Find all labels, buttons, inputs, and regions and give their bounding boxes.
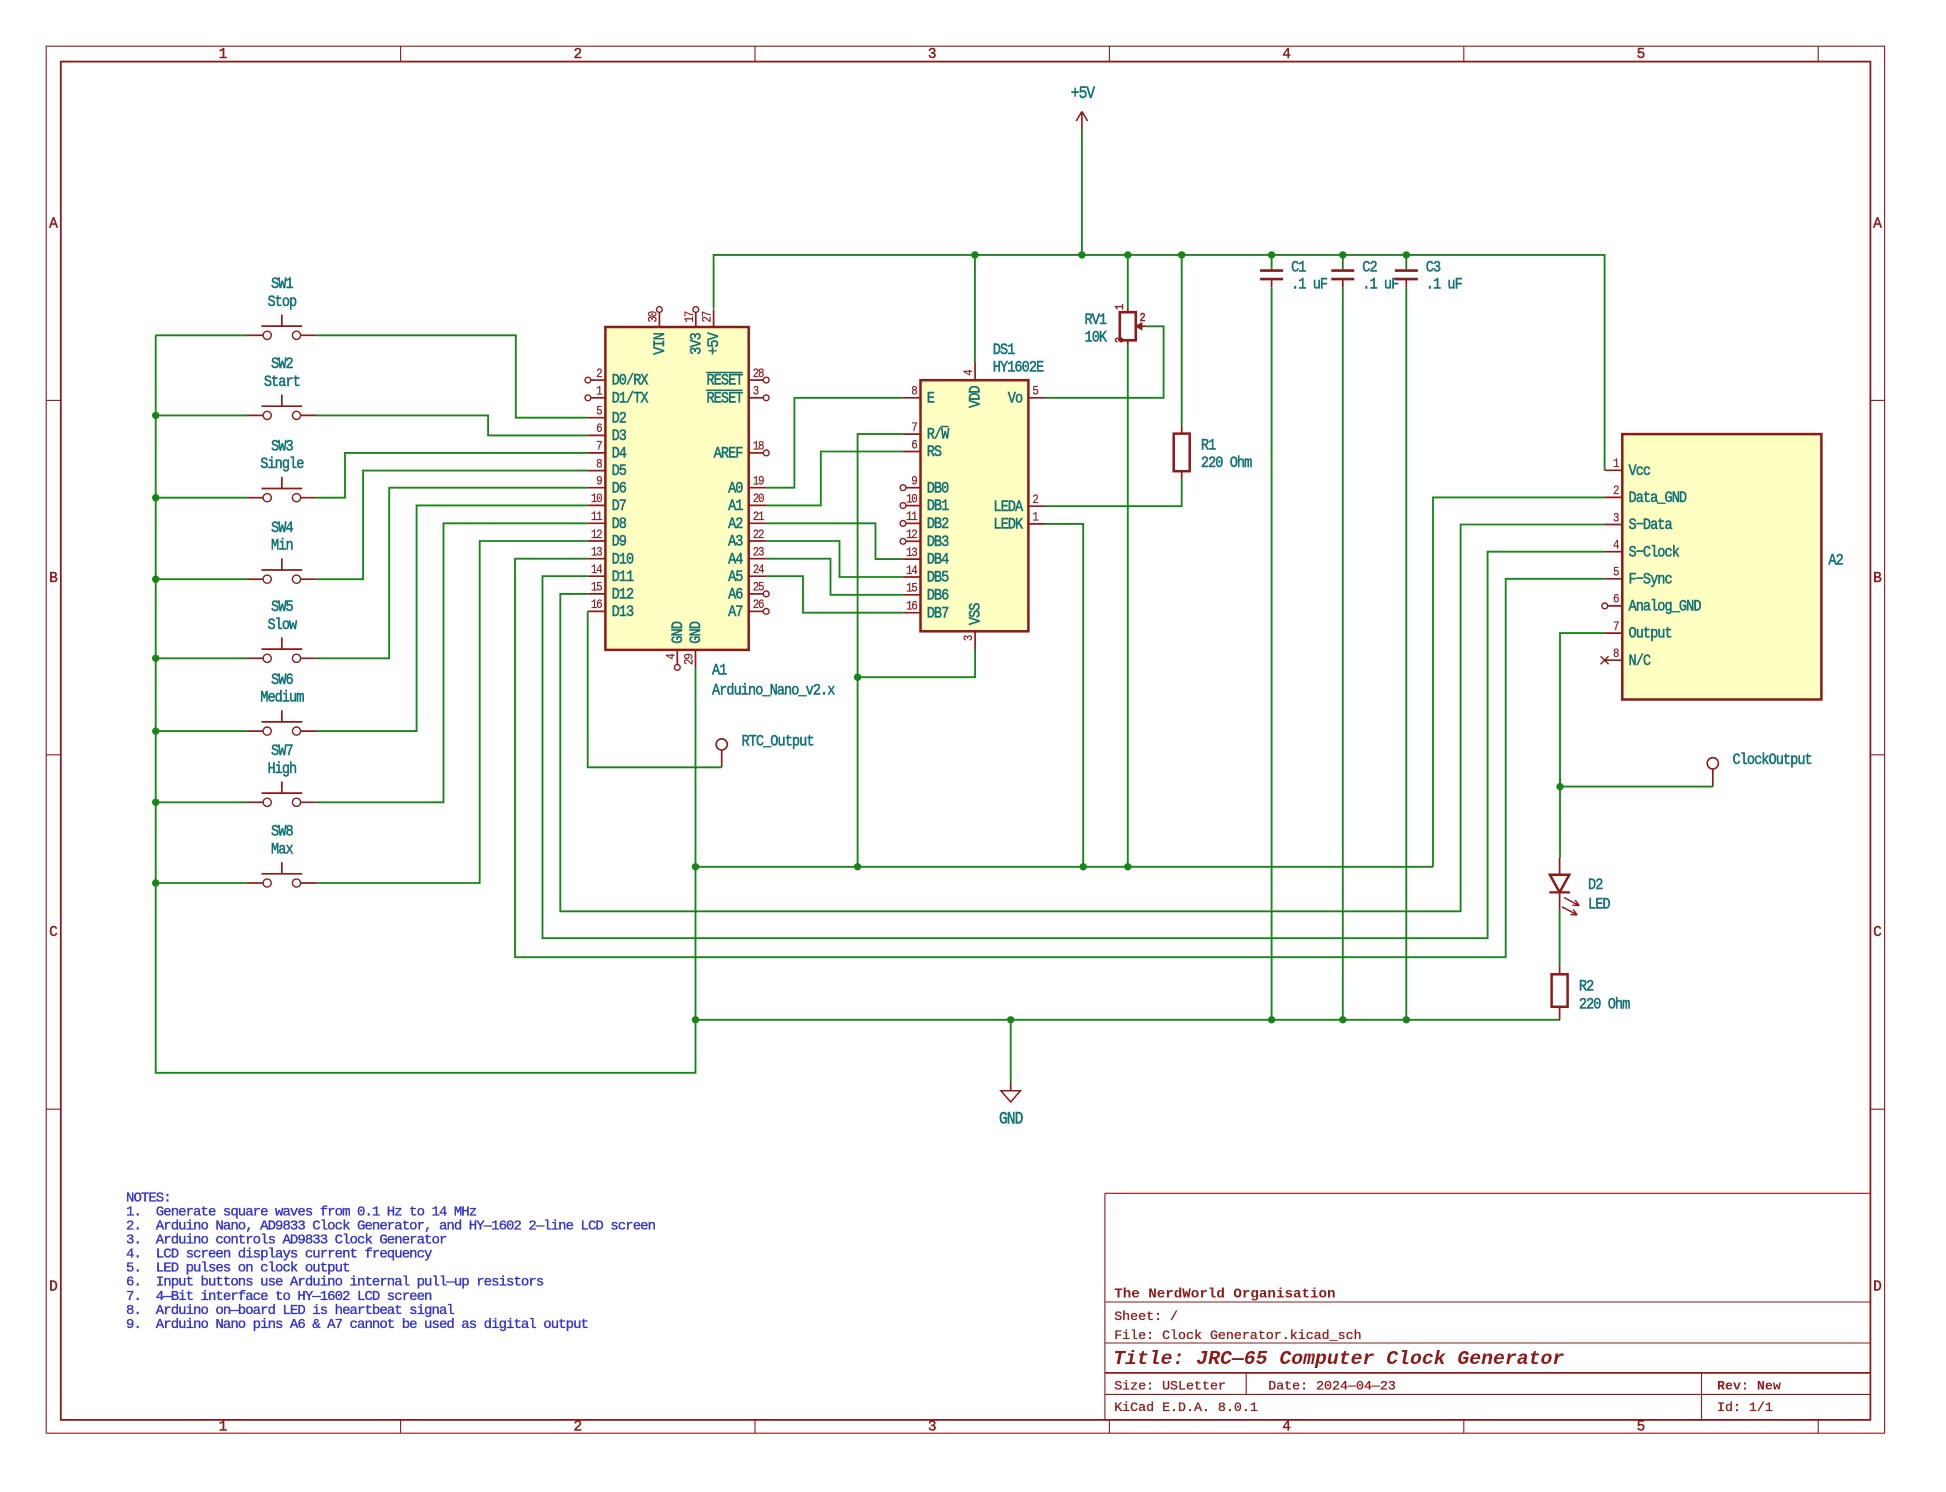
svg-text:10: 10 <box>906 492 918 507</box>
switch SW5 Slow <box>247 599 317 662</box>
svg-text:27: 27 <box>700 311 715 323</box>
svg-text:3: 3 <box>1114 337 1127 343</box>
switch SW1 Stop <box>247 276 317 339</box>
svg-text:DS1: DS1 <box>993 342 1016 359</box>
svg-text:1: 1 <box>1613 456 1619 471</box>
svg-text:D13: D13 <box>612 604 634 621</box>
svg-text:14: 14 <box>591 562 603 577</box>
svg-text:D2: D2 <box>612 410 627 427</box>
A2 pin 2 Data_GND <box>1605 483 1688 507</box>
svg-text:Start: Start <box>264 374 300 391</box>
svg-text:E: E <box>927 391 935 408</box>
svg-text:Size: USLetter: Size: USLetter <box>1114 1379 1226 1394</box>
svg-text:220 Ohm: 220 Ohm <box>1201 455 1252 472</box>
svg-text:17: 17 <box>682 311 697 323</box>
svg-text:5: 5 <box>1032 384 1038 399</box>
svg-text:.1 uF: .1 uF <box>1426 276 1462 293</box>
svg-text:SW1: SW1 <box>271 276 294 293</box>
wire SW4 to A1 D5 <box>317 471 588 580</box>
svg-text:6: 6 <box>911 438 917 453</box>
A1 pin 22 A3 <box>728 527 766 551</box>
wire A1 D11 to A2 S-Clock <box>543 552 1605 939</box>
svg-text:13: 13 <box>591 545 603 560</box>
wire A1 A0 to DS1 E <box>766 398 902 488</box>
svg-text:2: 2 <box>1139 312 1145 325</box>
svg-text:VDD: VDD <box>968 385 985 408</box>
svg-text:SW3: SW3 <box>271 439 293 456</box>
A1 pin 7 D4 <box>588 439 627 463</box>
A1 pin 21 A2 <box>728 509 766 533</box>
wire SW7 to A1 D8 <box>317 523 588 802</box>
power symbol +5V <box>1071 84 1096 255</box>
svg-text:S−Data: S−Data <box>1629 517 1673 534</box>
svg-text:HY1602E: HY1602E <box>993 360 1044 377</box>
A1 pin 29 GND <box>682 621 706 668</box>
wire rail to SW1 <box>156 334 247 336</box>
svg-text:13: 13 <box>906 545 918 560</box>
A1 pin 3 RESET <box>706 384 769 408</box>
svg-text:7: 7 <box>596 439 602 454</box>
wire A1 A5 to DS1 DB7 <box>766 576 902 613</box>
DS1 pin 15 DB6 <box>903 581 949 605</box>
wire A1 D10 to A2 F-Sync <box>515 559 1605 958</box>
wire SW8 to A1 D9 <box>317 541 588 883</box>
wire SW6 to A1 D7 <box>317 505 588 731</box>
svg-text:A: A <box>49 216 58 232</box>
wire A1 A3 to DS1 DB5 <box>766 541 902 577</box>
svg-text:1: 1 <box>219 1420 228 1436</box>
svg-text:3: 3 <box>961 635 976 641</box>
A1 pin 12 D9 <box>588 527 626 551</box>
svg-text:3: 3 <box>753 384 759 399</box>
svg-text:7: 7 <box>1613 619 1619 634</box>
junction ClockOutput <box>1556 783 1563 790</box>
svg-text:11: 11 <box>591 509 603 524</box>
wire +5V rail <box>714 255 1605 470</box>
svg-text:2: 2 <box>1613 483 1619 498</box>
A1 pin 26 A7 <box>728 597 769 621</box>
svg-text:D6: D6 <box>612 480 627 497</box>
svg-text:24: 24 <box>753 562 765 577</box>
svg-text:.1 uF: .1 uF <box>1362 276 1398 293</box>
svg-text:D9: D9 <box>612 534 627 551</box>
LCD DS1 body <box>921 380 1029 631</box>
A1 pin 25 A6 <box>728 580 769 604</box>
DS1 pin 10 DB1 <box>900 492 949 516</box>
svg-text:12: 12 <box>906 527 918 542</box>
svg-text:SW5: SW5 <box>271 599 293 616</box>
potentiometer RV1 10K <box>1085 255 1147 867</box>
svg-text:19: 19 <box>753 474 765 489</box>
wire RV1 wiper to DS1 Vo <box>1046 326 1164 398</box>
DS1 pin 12 DB3 <box>900 527 948 551</box>
svg-text:8: 8 <box>596 457 602 472</box>
svg-text:A5: A5 <box>728 569 743 586</box>
svg-text:D3: D3 <box>612 428 627 445</box>
border row ticks <box>46 400 1884 1109</box>
svg-text:High: High <box>267 761 296 778</box>
A2 pin 7 Output <box>1605 619 1672 643</box>
svg-text:A3: A3 <box>728 534 743 551</box>
notes text <box>126 1190 656 1332</box>
wire rail to SW6 <box>156 730 247 732</box>
svg-text:10K: 10K <box>1085 330 1108 347</box>
A1 pin 18 AREF <box>714 439 769 463</box>
A1 pin 1 D1/TX <box>585 384 649 408</box>
svg-text:14: 14 <box>906 563 918 578</box>
wire SW2 to A1 D3 <box>317 415 588 435</box>
DS1 pin 6 RS <box>903 438 942 462</box>
svg-text:8: 8 <box>911 384 917 399</box>
A1 pin 15 D12 <box>588 580 634 604</box>
svg-text:220 Ohm: 220 Ohm <box>1579 996 1630 1013</box>
DS1 pin 1 LEDK <box>993 510 1046 534</box>
svg-text:RESET: RESET <box>706 391 743 408</box>
svg-text:9: 9 <box>911 474 917 489</box>
wire A1 D12 to A2 S-Data <box>560 525 1604 912</box>
svg-text:Output: Output <box>1629 626 1672 643</box>
svg-text:R/W: R/W <box>927 427 950 444</box>
border column ticks <box>401 46 1819 1433</box>
svg-text:4: 4 <box>1613 538 1619 553</box>
border column labels <box>219 47 1646 1436</box>
svg-text:A2: A2 <box>728 516 743 533</box>
connector ClockOutput <box>1707 752 1812 786</box>
DS1 pin 2 LEDA <box>993 492 1046 516</box>
wire rail to SW7 <box>156 801 247 803</box>
A2 pin 3 S−Data <box>1605 511 1673 535</box>
svg-text:1: 1 <box>219 47 228 63</box>
svg-text:23: 23 <box>753 545 765 560</box>
svg-text:SW4: SW4 <box>271 520 294 537</box>
svg-text:VIN: VIN <box>652 333 669 355</box>
svg-text:Single: Single <box>260 456 303 473</box>
svg-text:C: C <box>49 925 58 941</box>
svg-text:16: 16 <box>906 599 918 614</box>
Arduino Nano A1 body <box>605 327 748 650</box>
wire A1 A1pin to DS1 RS <box>766 452 902 506</box>
junction R/W VSS <box>854 674 861 681</box>
svg-text:Data_GND: Data_GND <box>1629 490 1688 507</box>
switch SW7 High <box>247 743 317 806</box>
svg-text:RV1: RV1 <box>1085 312 1108 329</box>
wire C3 to ground rail <box>1405 288 1407 1020</box>
svg-text:6: 6 <box>596 421 602 436</box>
title block frame <box>1105 1193 1871 1420</box>
A1 pin 28 RESET <box>706 366 769 390</box>
svg-text:21: 21 <box>753 509 765 524</box>
wire DS1 R/W to ground bus <box>858 434 903 867</box>
DS1 pin 16 DB7 <box>903 599 949 623</box>
A1 pin 14 D11 <box>588 562 635 586</box>
svg-text:30: 30 <box>646 311 661 323</box>
svg-text:Max: Max <box>271 842 294 859</box>
svg-text:3V3: 3V3 <box>689 333 706 355</box>
svg-text:1: 1 <box>1032 510 1038 525</box>
A2 pin 5 F−Sync <box>1605 565 1672 589</box>
DS1 pin 9 DB0 <box>900 474 948 498</box>
wire R1 to DS1 LEDA <box>1046 479 1182 506</box>
svg-text:A7: A7 <box>728 604 743 621</box>
svg-text:9: 9 <box>596 474 602 489</box>
wire switch common rail <box>156 335 696 1073</box>
svg-text:File: Clock Generator.kicad_sc: File: Clock Generator.kicad_sch <box>1114 1328 1361 1343</box>
svg-text:GND: GND <box>670 621 687 644</box>
wire C1 to ground rail <box>1271 288 1273 1020</box>
svg-text:SW8: SW8 <box>271 824 293 841</box>
resistor R2 220 Ohm <box>1552 966 1631 1019</box>
svg-text:F−Sync: F−Sync <box>1629 572 1672 589</box>
svg-text:D4: D4 <box>612 446 627 463</box>
svg-text:C3: C3 <box>1426 259 1441 276</box>
svg-text:1: 1 <box>596 384 602 399</box>
A1 pin 2 D0/RX <box>585 366 649 390</box>
junction dots ground rail <box>692 1016 1410 1023</box>
svg-text:DB4: DB4 <box>927 552 950 569</box>
svg-text:4: 4 <box>961 369 976 375</box>
A1 pin 27 +5V <box>700 309 724 355</box>
A1 pin 19 A0 <box>728 474 766 498</box>
svg-text:16: 16 <box>591 597 603 612</box>
svg-text:LED: LED <box>1588 897 1611 914</box>
svg-text:DB0: DB0 <box>927 480 949 497</box>
svg-text:Medium: Medium <box>260 690 304 707</box>
A1 pin 5 D2 <box>588 404 626 428</box>
svg-text:Sheet: /: Sheet: / <box>1114 1309 1178 1324</box>
svg-text:GND: GND <box>688 621 705 644</box>
DS1 pin 11 DB2 <box>900 509 948 533</box>
svg-text:D8: D8 <box>612 516 627 533</box>
svg-text:Arduino_Nano_v2.x: Arduino_Nano_v2.x <box>712 683 835 700</box>
svg-text:29: 29 <box>682 653 697 665</box>
junction dots on switch rail <box>152 412 159 887</box>
svg-text:.1 uF: .1 uF <box>1291 276 1327 293</box>
svg-text:Slow: Slow <box>267 617 297 634</box>
wire DS1 LEDK to ground bus <box>1046 524 1083 867</box>
svg-text:The NerdWorld Organisation: The NerdWorld Organisation <box>1114 1287 1335 1303</box>
wire A1 GND29 down <box>695 668 697 1020</box>
wire rail to SW3 <box>156 497 247 499</box>
svg-text:D: D <box>49 1280 58 1296</box>
wire SW1 to A1 D2 <box>317 335 588 417</box>
svg-text:D12: D12 <box>612 587 634 604</box>
capacitor C3 .1 uF <box>1395 255 1462 294</box>
svg-text:A4: A4 <box>728 551 743 568</box>
svg-text:D5: D5 <box>612 463 627 480</box>
svg-text:DB2: DB2 <box>927 516 949 533</box>
wire ground collector <box>696 866 1434 868</box>
svg-text:DB7: DB7 <box>927 605 949 622</box>
svg-text:C1: C1 <box>1291 259 1306 276</box>
wire to ClockOutput <box>1560 786 1713 788</box>
svg-text:11: 11 <box>906 509 918 524</box>
ground symbol GND <box>999 1020 1023 1129</box>
svg-text:DB3: DB3 <box>927 534 949 551</box>
svg-text:26: 26 <box>753 597 765 612</box>
wire A1 A4 to DS1 DB6 <box>766 559 902 595</box>
svg-text:Stop: Stop <box>267 294 296 311</box>
svg-text:5: 5 <box>1637 47 1646 63</box>
svg-text:18: 18 <box>753 439 765 454</box>
wire A1 D13 to RTC_Output <box>588 611 722 767</box>
svg-text:LEDK: LEDK <box>993 517 1023 534</box>
DS1 pin 13 DB4 <box>903 545 950 569</box>
svg-text:5: 5 <box>596 404 602 419</box>
svg-text:D1/TX: D1/TX <box>612 391 649 408</box>
wire LED to R2 <box>1559 910 1561 966</box>
switch SW3 Single <box>247 439 317 502</box>
A1 pin 23 A4 <box>728 545 766 569</box>
svg-text:A0: A0 <box>728 480 743 497</box>
svg-text:Vo: Vo <box>1008 391 1023 408</box>
svg-text:R1: R1 <box>1201 438 1216 455</box>
A1 pin 16 D13 <box>588 597 634 621</box>
svg-text:Min: Min <box>271 538 293 555</box>
svg-text:SW7: SW7 <box>271 743 293 760</box>
DS1 pin 8 E <box>903 384 935 408</box>
wire C2 to ground rail <box>1342 288 1344 1020</box>
svg-text:DB5: DB5 <box>927 570 949 587</box>
svg-text:LEDA: LEDA <box>993 499 1023 516</box>
svg-text:Rev: New: Rev: New <box>1717 1379 1781 1394</box>
wire rail to SW5 <box>156 657 247 659</box>
svg-text:RESET: RESET <box>706 373 743 390</box>
svg-text:A1: A1 <box>712 663 727 680</box>
svg-text:S−Clock: S−Clock <box>1629 544 1680 561</box>
border row labels <box>49 216 1882 1295</box>
svg-text:SW6: SW6 <box>271 672 293 689</box>
svg-text:D10: D10 <box>612 551 634 568</box>
A2 pin 1 Vcc <box>1605 456 1651 480</box>
A1 pin 24 A5 <box>728 562 766 586</box>
svg-text:C2: C2 <box>1362 259 1377 276</box>
svg-text:25: 25 <box>753 580 765 595</box>
svg-text:4: 4 <box>1282 47 1291 63</box>
wire DS1 VSS to ground bus <box>858 649 976 677</box>
svg-text:10: 10 <box>591 491 603 506</box>
switch SW2 Start <box>247 356 317 419</box>
DS1 pin 5 Vo <box>1008 384 1046 408</box>
svg-text:9. Arduino Nano pins A6 & A7: 9. Arduino Nano pins A6 & A7 cannot be u… <box>126 1317 588 1333</box>
svg-text:B: B <box>49 571 58 587</box>
A1 pin 10 D7 <box>588 491 626 515</box>
svg-text:D7: D7 <box>612 498 627 515</box>
svg-text:DB6: DB6 <box>927 588 949 605</box>
svg-text:N/C: N/C <box>1629 653 1652 670</box>
wire DS1 VDD to +5V rail <box>974 255 976 363</box>
svg-text:15: 15 <box>591 580 603 595</box>
LED D2 <box>1549 858 1610 915</box>
svg-text:7: 7 <box>911 420 917 435</box>
svg-text:2: 2 <box>596 366 602 381</box>
svg-text:4: 4 <box>1282 1420 1291 1436</box>
svg-text:5: 5 <box>1613 565 1619 580</box>
connector RTC_Output <box>716 734 814 768</box>
svg-text:2: 2 <box>573 1420 582 1436</box>
svg-text:DB1: DB1 <box>927 498 950 515</box>
svg-text:SW2: SW2 <box>271 356 293 373</box>
svg-text:+5V: +5V <box>706 332 723 355</box>
DS1 pin 3 VSS <box>961 602 985 649</box>
A2 pin 8 N/C <box>1601 646 1652 670</box>
wire rail to SW2 <box>156 414 247 416</box>
svg-text:Analog_GND: Analog_GND <box>1629 599 1702 616</box>
svg-text:D0/RX: D0/RX <box>612 373 649 390</box>
svg-text:Id: 1/1: Id: 1/1 <box>1717 1400 1773 1415</box>
svg-text:Vcc: Vcc <box>1629 463 1651 480</box>
svg-text:A2: A2 <box>1828 553 1843 570</box>
svg-text:B: B <box>1873 571 1882 587</box>
DS1 pin 7 R/W <box>903 420 950 444</box>
svg-text:D11: D11 <box>612 569 635 586</box>
svg-text:A1: A1 <box>728 498 743 515</box>
svg-text:RS: RS <box>927 444 942 461</box>
svg-text:A: A <box>1873 216 1882 232</box>
wire A2 Output to LED <box>1560 633 1605 858</box>
A1 pin 11 D8 <box>588 509 626 533</box>
svg-text:GND: GND <box>999 1109 1023 1128</box>
A2 pin 4 S−Clock <box>1605 538 1680 562</box>
svg-text:R2: R2 <box>1579 979 1594 996</box>
svg-text:VSS: VSS <box>968 602 985 625</box>
wire A2 Data_GND to ground bus <box>1433 497 1605 866</box>
svg-text:C: C <box>1873 925 1882 941</box>
svg-text:5: 5 <box>1637 1420 1646 1436</box>
svg-text:Date: 2024—04—23: Date: 2024—04—23 <box>1268 1379 1396 1394</box>
DS1 pin 4 VDD <box>961 363 985 409</box>
A1 pin 8 D5 <box>588 457 626 481</box>
wire ground rail <box>696 1019 1561 1021</box>
junction dots ground collector <box>692 863 1132 870</box>
DS1 pin 14 DB5 <box>903 563 949 587</box>
wire SW5 to A1 D6 <box>317 488 588 659</box>
A1 pin 20 A1 <box>728 491 766 515</box>
svg-text:KiCad E.D.A. 8.0.1: KiCad E.D.A. 8.0.1 <box>1114 1400 1258 1415</box>
svg-text:D: D <box>1873 1280 1882 1296</box>
A2 pin 6 Analog_GND <box>1602 592 1702 616</box>
wire SW3 to A1 D4 <box>317 453 588 498</box>
svg-text:Title: JRC—65 Computer Clock G: Title: JRC—65 Computer Clock Generator <box>1113 1348 1564 1370</box>
switch SW8 Max <box>247 824 317 887</box>
svg-text:28: 28 <box>753 366 765 381</box>
svg-text:12: 12 <box>591 527 603 542</box>
A1 pin 4 GND <box>664 621 688 670</box>
capacitor C2 .1 uF <box>1331 255 1398 294</box>
svg-text:2: 2 <box>573 47 582 63</box>
svg-text:ClockOutput: ClockOutput <box>1733 752 1812 769</box>
svg-text:A6: A6 <box>728 587 743 604</box>
AD9833 A2 body <box>1622 434 1821 699</box>
svg-text:3: 3 <box>928 47 937 63</box>
svg-text:3: 3 <box>928 1420 937 1436</box>
wire rail to SW4 <box>156 578 247 580</box>
A1 pin 17 3V3 <box>682 307 706 355</box>
junction dots +5V rail <box>971 251 1410 258</box>
A1 pin 6 D3 <box>588 421 626 445</box>
A1 pin 30 VIN <box>646 307 670 355</box>
resistor R1 220 Ohm <box>1174 255 1253 479</box>
svg-text:RTC_Output: RTC_Output <box>742 734 814 751</box>
svg-text:20: 20 <box>753 491 765 506</box>
svg-text:8: 8 <box>1613 646 1619 661</box>
svg-text:6: 6 <box>1613 592 1619 607</box>
svg-text:4: 4 <box>664 653 679 659</box>
svg-text:2: 2 <box>1032 492 1038 507</box>
svg-text:1: 1 <box>1114 304 1127 310</box>
svg-text:3: 3 <box>1613 511 1619 526</box>
switch SW4 Min <box>247 520 317 583</box>
A1 pin 9 D6 <box>588 474 626 498</box>
